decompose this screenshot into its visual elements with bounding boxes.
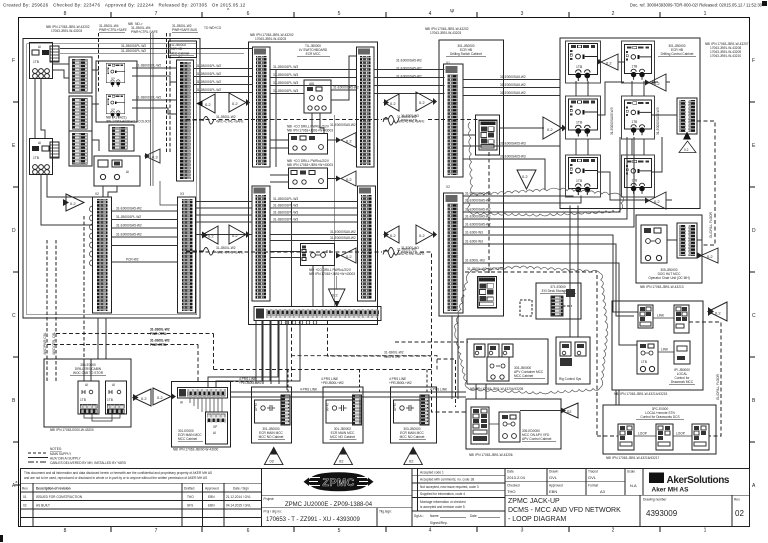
rotated labels D right bbox=[610, 107, 660, 135]
tick mark a left bbox=[15, 484, 20, 486]
svg-text:GL/DRILL FLOOR: GL/DRILL FLOOR bbox=[709, 211, 713, 238]
svg-text:31-JB00L-W2: 31-JB00L-W2 bbox=[216, 115, 236, 119]
svg-text:31-JB0001PL-W2: 31-JB0001PL-W2 bbox=[196, 64, 221, 68]
svg-text:AI: AI bbox=[112, 383, 115, 387]
revision row 02 bbox=[23, 504, 251, 508]
svg-text:IPN 17063+E000+CL+COL0O7: IPN 17063+E000+CL+COL0O7 bbox=[106, 120, 151, 124]
dashed into G left bbox=[597, 435, 618, 437]
svg-text:3: 3 bbox=[521, 528, 524, 534]
svg-text:0.2: 0.2 bbox=[390, 101, 396, 106]
title block outline bbox=[20, 468, 749, 526]
svg-text:1TB: 1TB bbox=[641, 360, 647, 364]
box L doghouse bbox=[391, 387, 437, 443]
note text right of D bbox=[705, 42, 749, 58]
svg-text:31-E0000SA5-W2: 31-E0000SA5-W2 bbox=[396, 67, 422, 71]
svg-text:Drawwork MCC: Drawwork MCC bbox=[671, 380, 694, 384]
svg-text:X1: X1 bbox=[178, 55, 182, 59]
gap A-B wires row2 bbox=[196, 202, 253, 235]
dashed wire gap B-C row2 bbox=[383, 246, 419, 255]
wire bundle C to D bbox=[463, 137, 638, 345]
svg-text:0.2: 0.2 bbox=[419, 100, 425, 105]
svg-text:Operator Chair Unit (OC MH): Operator Chair Unit (OC MH) bbox=[648, 276, 689, 280]
svg-text:GL/DRILL FLOOR: GL/DRILL FLOOR bbox=[716, 373, 720, 400]
wires B internal upper bbox=[270, 56, 357, 243]
svg-text:31-E0000SA05-W3: 31-E0000SA05-W3 bbox=[656, 107, 660, 135]
svg-text:Drawn: Drawn bbox=[549, 470, 558, 474]
revision table bbox=[20, 468, 261, 526]
svg-text:PWR CTRL: PWR CTRL bbox=[150, 343, 167, 347]
svg-text:X2: X2 bbox=[95, 192, 99, 196]
squiggle right of B row2 bbox=[383, 250, 394, 258]
svg-text:31-JB0001PL-W3: 31-JB0001PL-W3 bbox=[273, 89, 298, 93]
dashed bus lower 1 bbox=[56, 328, 214, 370]
triangle D-T3 bbox=[645, 192, 666, 209]
wire M1 to relays bbox=[53, 64, 70, 78]
svg-text:Accepted with comments, no. co: Accepted with comments, no. code 1B bbox=[420, 478, 474, 482]
svg-text:Name: Name bbox=[430, 514, 439, 518]
svg-text:NB! IPN 17063+JB91+W+43003: NB! IPN 17063+JB91+W+43003 bbox=[309, 272, 355, 276]
triangle B-T2 bbox=[336, 171, 356, 186]
svg-text:+PE/JB00L+W2: +PE/JB00L+W2 bbox=[389, 381, 412, 385]
svg-text:Format: Format bbox=[588, 484, 598, 488]
EX deck storage area box bbox=[536, 283, 581, 319]
cable label group 2 top bbox=[128, 22, 158, 34]
svg-text:31-E000SA05-W3: 31-E000SA05-W3 bbox=[500, 142, 526, 146]
svg-text:4WC+CTRL+SAFE: 4WC+CTRL+SAFE bbox=[216, 120, 243, 124]
svg-text:4 PRS LINK: 4 PRS LINK bbox=[300, 388, 318, 392]
svg-text:31-JB00L-W2: 31-JB00L-W2 bbox=[384, 351, 404, 355]
module D-M4 bbox=[624, 100, 651, 135]
svg-text:NB! IPN 17063-E000-W-43200: NB! IPN 17063-E000-W-43200 bbox=[50, 428, 94, 432]
cabinet A inner frame bbox=[27, 44, 197, 315]
svg-text:LINK: LINK bbox=[657, 314, 665, 318]
squiggle right of B row1 bbox=[383, 118, 394, 126]
svg-text:Montage information or checked: Montage information or checked bbox=[420, 500, 466, 504]
revision row 01 bbox=[23, 495, 251, 499]
svg-text:31-E0000SA5-W2: 31-E0000SA5-W2 bbox=[396, 75, 422, 79]
dashed bus lower 1 bbox=[56, 328, 214, 370]
corner mark top-right bbox=[762, 1, 767, 6]
svg-text:31-JB0001PL-W2: 31-JB0001PL-W2 bbox=[136, 64, 161, 68]
dashed wire gap A-B row2 bbox=[186, 246, 243, 255]
cable label group 1 top bbox=[99, 24, 127, 32]
svg-text:31-E0000SA5-W2: 31-E0000SA5-W2 bbox=[396, 59, 422, 63]
gap B-C wire labels row1 bbox=[396, 59, 422, 79]
dashed bus lower 2 bbox=[47, 339, 468, 382]
svg-text:31-E000SA05-W3: 31-E000SA05-W3 bbox=[500, 155, 526, 159]
svg-text:MCC NO Cabinet: MCC NO Cabinet bbox=[330, 435, 355, 439]
svg-text:Date: Date bbox=[507, 470, 514, 474]
svg-text:NB! IPN 17063-JB91-W-43214/432: NB! IPN 17063-JB91-W-43214/43215 bbox=[614, 392, 668, 396]
svg-text:4: 4 bbox=[429, 528, 432, 534]
cable label group 3 top bbox=[172, 24, 198, 32]
svg-text:AI+M: AI+M bbox=[254, 403, 258, 411]
svg-text:MCC Cabinet: MCC Cabinet bbox=[514, 374, 533, 378]
svg-text:Doc. ref. 30004393009-TDR-000-: Doc. ref. 30004393009-TDR-000-02/ Releas… bbox=[630, 3, 763, 8]
svg-text:31-JB0001PL-W2: 31-JB0001PL-W2 bbox=[116, 215, 141, 219]
dashed bus H left bbox=[420, 252, 466, 412]
svg-text:31-E0000SA5-W2: 31-E0000SA5-W2 bbox=[465, 192, 491, 196]
svg-text:Aker MH AS: Aker MH AS bbox=[652, 486, 690, 493]
svg-text:TO WD+CO: TO WD+CO bbox=[204, 26, 222, 30]
dashed cable drop 1 bbox=[98, 33, 100, 93]
dashed bus lower 2 bbox=[47, 339, 468, 382]
svg-text:Drawing number: Drawing number bbox=[643, 498, 667, 502]
wire trunk down left cabinet bbox=[41, 175, 93, 226]
svg-text:GVL: GVL bbox=[588, 475, 597, 480]
svg-text:MAIN SUPPLY: MAIN SUPPLY bbox=[50, 452, 72, 456]
cabinet B label bbox=[297, 44, 330, 56]
svg-text:LOOP: LOOP bbox=[676, 432, 685, 436]
rev box bbox=[732, 495, 744, 526]
dashed bus through B row2 bbox=[186, 251, 382, 253]
svg-text:4WC/PWR CBL: 4WC/PWR CBL bbox=[43, 332, 47, 355]
svg-text:21.12.2014 / GVL: 21.12.2014 / GVL bbox=[226, 495, 251, 499]
wires J to H bbox=[231, 392, 467, 397]
svg-text:31-E000-W3: 31-E000-W3 bbox=[465, 240, 483, 244]
svg-text:Accepted code 1: Accepted code 1 bbox=[420, 471, 444, 475]
dashed drop A bottom 2 bbox=[55, 240, 57, 381]
module B-M4 bbox=[301, 244, 335, 266]
svg-text:MCC NO Cabinet: MCC NO Cabinet bbox=[400, 435, 425, 439]
date table bbox=[505, 468, 750, 495]
ruler numbers bottom bbox=[64, 528, 707, 535]
triangle B-T1 bbox=[336, 133, 356, 148]
project row bbox=[262, 495, 413, 508]
triangle pair right of I left bbox=[133, 389, 151, 406]
triangle between H and G bbox=[561, 403, 578, 418]
svg-text:0.2: 0.2 bbox=[707, 254, 713, 259]
svg-text:5: 5 bbox=[338, 11, 341, 17]
drawing number box bbox=[640, 495, 678, 526]
svg-text:02: 02 bbox=[409, 459, 414, 464]
date table texts bbox=[507, 470, 635, 488]
svg-text:31-E0000SA05-W3: 31-E0000SA05-W3 bbox=[610, 107, 614, 135]
triangle pair gap B-C row1 right bbox=[416, 92, 437, 111]
svg-text:17063-JB91-W-43203: 17063-JB91-W-43203 bbox=[51, 29, 82, 33]
svg-text:NB! IPN 17063-JB91-W-43216/432: NB! IPN 17063-JB91-W-43216/43217 bbox=[606, 456, 660, 460]
cabinet B bottom drops bbox=[256, 321, 287, 391]
svg-text:31-E0000SA5-W2: 31-E0000SA5-W2 bbox=[500, 91, 526, 95]
ruler numbers top bbox=[64, 11, 707, 17]
wire bundle labels C-D bbox=[465, 192, 491, 263]
box K2 bbox=[323, 387, 363, 443]
svg-text:31-JB0001PL-W2: 31-JB0001PL-W2 bbox=[121, 44, 146, 48]
label right of B row2 bbox=[397, 248, 424, 257]
ruler ticks right bbox=[750, 102, 756, 442]
svg-text:Supplied for information, code: Supplied for information, code 4 bbox=[420, 492, 465, 496]
svg-text:17063-JB91-W-43203: 17063-JB91-W-43203 bbox=[430, 31, 461, 35]
svg-text:C: C bbox=[12, 313, 16, 319]
terminal block D-TB bbox=[677, 98, 697, 134]
wires C-T2 down to box H bbox=[452, 316, 486, 399]
module C-M1 bbox=[476, 115, 500, 155]
terminal strip A-T1 bbox=[177, 60, 194, 181]
svg-text:31-JB0001PL-W2: 31-JB0001PL-W2 bbox=[121, 49, 146, 53]
svg-text:4WC/CTRL CBL: 4WC/CTRL CBL bbox=[52, 332, 56, 355]
svg-text:ZPMC: ZPMC bbox=[322, 477, 354, 489]
module B-M1 bbox=[304, 80, 331, 113]
svg-text:31-E000-W3: 31-E000-W3 bbox=[401, 114, 419, 118]
module A-M1 bbox=[30, 43, 53, 79]
svg-text:MCC NO Cabinet: MCC NO Cabinet bbox=[259, 435, 284, 439]
svg-text:NB! IPN 17063-JB000-W-43000: NB! IPN 17063-JB000-W-43000 bbox=[173, 448, 219, 452]
svg-text:PCR-W2: PCR-W2 bbox=[126, 258, 139, 262]
svg-text:6: 6 bbox=[247, 11, 250, 17]
svg-text:02: 02 bbox=[270, 459, 275, 464]
triangle pair gap B-C row2 left bbox=[384, 226, 399, 243]
relay stack A-R2 bbox=[69, 96, 92, 131]
svg-text:Rev.: Rev. bbox=[22, 487, 28, 491]
svg-text:3: 3 bbox=[521, 11, 524, 17]
dashed bus through B row1 bbox=[186, 119, 382, 121]
svg-text:Not accepted, new issue requir: Not accepted, new issue required, code 3 bbox=[420, 485, 479, 489]
module D-M5 bbox=[569, 158, 598, 196]
svg-text:EBN: EBN bbox=[208, 495, 215, 499]
svg-text:F: F bbox=[752, 58, 755, 64]
svg-text:02: 02 bbox=[339, 459, 344, 464]
svg-text:X2: X2 bbox=[446, 185, 450, 189]
svg-text:C: C bbox=[752, 313, 756, 319]
svg-text:31-JB0001PL-W3: 31-JB0001PL-W3 bbox=[273, 73, 298, 77]
svg-text:ISSUED FOR CONSTRUCTION: ISSUED FOR CONSTRUCTION bbox=[36, 495, 83, 499]
rig control sys box bbox=[556, 337, 590, 384]
box G drawworks DCS bbox=[603, 405, 716, 454]
wires D internal bbox=[598, 60, 677, 200]
module D-M1 outer bbox=[566, 41, 601, 83]
triangle under K2 bbox=[334, 447, 353, 464]
svg-text:0.2: 0.2 bbox=[547, 127, 553, 132]
svg-text:0.2: 0.2 bbox=[346, 177, 352, 182]
svg-text:02: 02 bbox=[567, 409, 572, 414]
svg-text:31-E0000SA5-W2: 31-E0000SA5-W2 bbox=[116, 233, 142, 237]
dashed drops below B bbox=[292, 321, 432, 381]
svg-text:Drafted: Drafted bbox=[184, 487, 195, 491]
dashed cells left of EX box bbox=[520, 300, 532, 316]
svg-text:31-JB0001PL-W3: 31-JB0001PL-W3 bbox=[273, 81, 298, 85]
svg-text:0.2: 0.2 bbox=[606, 61, 612, 66]
triangle pair gap B-C row2 right bbox=[416, 225, 437, 244]
svg-text:7: 7 bbox=[155, 528, 158, 534]
svg-text:Date: Date bbox=[470, 514, 477, 518]
svg-text:NB! IPN 17063-JB91-W-43206: NB! IPN 17063-JB91-W-43206 bbox=[469, 453, 513, 457]
svg-text:Date / Sign: Date / Sign bbox=[233, 487, 249, 491]
wire M1 down bbox=[35, 79, 45, 139]
wire labels B internal lower bbox=[273, 197, 356, 240]
ruler letters right bbox=[752, 58, 756, 489]
svg-text:5: 5 bbox=[338, 528, 341, 534]
svg-text:is accepted and revision code: is accepted and revision code 5 bbox=[420, 505, 465, 509]
triangle pair gap A-B row1 left bbox=[196, 94, 215, 113]
svg-text:This document and all informat: This document and all information and da… bbox=[24, 471, 212, 475]
svg-text:31-JB0001PL-W2: 31-JB0001PL-W2 bbox=[196, 88, 221, 92]
svg-text:2: 2 bbox=[612, 11, 615, 17]
triangle D-T1 bbox=[597, 54, 618, 70]
module A-B1 bbox=[106, 63, 124, 87]
terminal strip C-T2 bbox=[444, 193, 464, 313]
svg-text:0.2: 0.2 bbox=[346, 139, 352, 144]
svg-text:NB! IPN 17063-JB91-W-43204/432: NB! IPN 17063-JB91-W-43204/43205 bbox=[470, 387, 524, 391]
svg-text:- LOOP DIAGRAM: - LOOP DIAGRAM bbox=[508, 516, 566, 523]
svg-text:ECR MCC: ECR MCC bbox=[306, 52, 322, 56]
box J ECR MAIN MCC bbox=[172, 381, 231, 447]
svg-text:Ψ: Ψ bbox=[450, 9, 454, 15]
APV container MCC cabinet bbox=[467, 339, 548, 384]
svg-text:Rig Control Sys: Rig Control Sys bbox=[559, 377, 582, 381]
svg-text:AUX/ DIN AI SUPPLY: AUX/ DIN AI SUPPLY bbox=[50, 457, 82, 461]
module D-M6 bbox=[624, 159, 651, 194]
cells box A-C1 bbox=[109, 125, 134, 151]
down triangle C bbox=[517, 170, 536, 189]
svg-text:SFS: SFS bbox=[187, 504, 193, 508]
hook circles under strip B-H bbox=[278, 321, 317, 325]
svg-text:4 PRS LINK: 4 PRS LINK bbox=[430, 388, 448, 392]
svg-text:6: 6 bbox=[247, 528, 250, 534]
svg-text:X3: X3 bbox=[180, 192, 184, 196]
svg-text:EBN: EBN bbox=[549, 489, 557, 494]
wire E internal bbox=[667, 240, 702, 249]
driller cabin box I bbox=[44, 359, 131, 427]
relay stack A-R3 bbox=[69, 131, 92, 166]
triangle C right bbox=[543, 117, 567, 139]
svg-text:Traced: Traced bbox=[588, 470, 598, 474]
big triangle F right bbox=[708, 302, 727, 321]
svg-text:AkerSolutions: AkerSolutions bbox=[667, 475, 730, 486]
svg-text:01: 01 bbox=[23, 495, 27, 499]
svg-text:31-JB0001PL-W2: 31-JB0001PL-W2 bbox=[136, 96, 161, 100]
svg-text:04.14.2015 / GVL: 04.14.2015 / GVL bbox=[226, 504, 251, 508]
module D-M3 bbox=[569, 99, 598, 137]
svg-text:and are not to be used, reprod: and are not to be used, reproduced or di… bbox=[24, 476, 207, 480]
svg-text:4WC+CTRL+SAFE: 4WC+CTRL+SAFE bbox=[216, 251, 243, 255]
wire A top runs bbox=[60, 44, 253, 54]
svg-text:31-E0000SA5-W2: 31-E0000SA5-W2 bbox=[330, 236, 356, 240]
svg-text:2013.2.04: 2013.2.04 bbox=[507, 475, 526, 480]
relay stack A-R1 bbox=[69, 57, 92, 93]
svg-text:0.2: 0.2 bbox=[232, 101, 238, 106]
svg-text:DCMS - MCC AND VFD NETWORK: DCMS - MCC AND VFD NETWORK bbox=[508, 507, 621, 514]
svg-text:0.2: 0.2 bbox=[654, 199, 660, 204]
svg-text:1TB: 1TB bbox=[33, 156, 39, 160]
svg-text:NB! IPN 17063+JB91+W+43003: NB! IPN 17063+JB91+W+43003 bbox=[287, 163, 333, 167]
hatch box A-H1 bbox=[50, 46, 59, 62]
wires C to D upper bbox=[463, 80, 560, 191]
module box A-B3 bbox=[94, 156, 140, 186]
svg-text:CABLES DELIVERED BY MH, INSTAL: CABLES DELIVERED BY MH, INSTALLED BY YAR… bbox=[50, 461, 127, 465]
svg-text:8: 8 bbox=[64, 11, 67, 17]
module B-M2 bbox=[289, 134, 328, 155]
svg-text:Tilg.tegn:: Tilg.tegn: bbox=[379, 510, 392, 514]
cabinet C outline bbox=[439, 40, 504, 316]
terminal strip A-T2 bbox=[93, 197, 112, 313]
svg-text:D: D bbox=[752, 228, 756, 234]
cabinet B outline bbox=[249, 42, 378, 325]
svg-text:Approved: Approved bbox=[205, 487, 219, 491]
dashed bus C-D bbox=[465, 267, 597, 272]
drg no row bbox=[262, 508, 413, 527]
cabinet B bottom drops bbox=[208, 321, 300, 388]
svg-text:PWR+CTRL SAFE: PWR+CTRL SAFE bbox=[131, 30, 158, 34]
squiggle gap A-B row1 bbox=[203, 117, 214, 125]
dashed drop A bottom 3 bbox=[83, 216, 85, 381]
triangle under K1 bbox=[264, 447, 283, 464]
svg-text:Description of revision: Description of revision bbox=[36, 487, 71, 491]
svg-text:31-E000-W3: 31-E000-W3 bbox=[401, 246, 419, 250]
wire labels T2-T3 bbox=[116, 207, 142, 262]
accepted codes texts bbox=[414, 471, 500, 526]
wires B internal lower bbox=[270, 202, 358, 307]
svg-text:31-E0000SA5-W2: 31-E0000SA5-W2 bbox=[465, 223, 491, 227]
ruler ticks top bbox=[111, 12, 660, 18]
svg-text:0.2: 0.2 bbox=[205, 102, 211, 107]
terminal strip B-TL bbox=[253, 47, 271, 167]
box K1 bbox=[252, 387, 292, 443]
triangle pair gap A-B row2 right bbox=[229, 225, 250, 244]
wire labels B internal upper bbox=[273, 65, 359, 127]
svg-text:4393009: 4393009 bbox=[646, 509, 678, 518]
hatch box A-H2 bbox=[50, 142, 59, 158]
dashed wire gap A-B row1 bbox=[186, 115, 243, 124]
wire B1 B2 to T1 bbox=[132, 68, 177, 114]
hook arcs left of strip A-T2 bbox=[90, 206, 93, 266]
note under module B-M4 bbox=[309, 268, 355, 276]
gap A-B wires row1 bbox=[194, 69, 253, 93]
svg-text:31-E0000SA5-W2: 31-E0000SA5-W2 bbox=[465, 199, 491, 203]
revision table header bbox=[22, 487, 249, 491]
svg-text:0.2: 0.2 bbox=[419, 233, 425, 238]
svg-text:31-JB00L-W2: 31-JB00L-W2 bbox=[216, 246, 236, 250]
svg-text:ZPMC JU2000E - ZP09-1388-04: ZPMC JU2000E - ZP09-1388-04 bbox=[285, 502, 373, 508]
triangle under L bbox=[404, 447, 423, 464]
svg-text:Drilling Switch Cabinet: Drilling Switch Cabinet bbox=[450, 52, 482, 56]
svg-text:1TB: 1TB bbox=[107, 398, 113, 402]
svg-text:1TB: 1TB bbox=[80, 398, 86, 402]
svg-text:0.2: 0.2 bbox=[141, 396, 147, 401]
dashed vertical cloud left bbox=[596, 275, 598, 436]
squiggle gap B-C row1 bbox=[388, 116, 399, 124]
svg-text:Created By: 259626 Checked B: Created By: 259626 Checked By: 223476 Ap… bbox=[3, 3, 246, 8]
svg-text:AI: AI bbox=[213, 431, 216, 435]
module D-M1 bbox=[569, 44, 598, 82]
squiggle gap A-B row2 bbox=[203, 248, 214, 256]
cloud main bbox=[455, 266, 608, 394]
svg-text:LOOP: LOOP bbox=[638, 432, 647, 436]
svg-text:Rev.: Rev. bbox=[734, 498, 740, 502]
svg-text:31-E000-W3: 31-E000-W3 bbox=[465, 231, 483, 235]
svg-text:AI: AI bbox=[126, 170, 129, 174]
svg-text:NOTES:: NOTES: bbox=[50, 447, 62, 451]
ruler letters left bbox=[12, 58, 16, 489]
gap A-B wire labels row1 bbox=[196, 64, 221, 92]
drawing title bbox=[508, 498, 621, 523]
svg-text:EBN: EBN bbox=[208, 504, 215, 508]
svg-text:Signed/Rep.: Signed/Rep. bbox=[430, 521, 448, 525]
corridor verticals D to cloud bbox=[570, 206, 619, 406]
svg-text:Project:: Project: bbox=[264, 497, 275, 501]
module A-B2 bbox=[106, 94, 124, 118]
svg-text:31-E0000SA5-W2: 31-E0000SA5-W2 bbox=[500, 83, 526, 87]
svg-text:a: a bbox=[16, 480, 18, 484]
disclaimer box bbox=[20, 468, 261, 483]
svg-text:31-JB0001PL-W3: 31-JB0001PL-W3 bbox=[273, 204, 298, 208]
wires D inter-module bbox=[576, 81, 644, 155]
gap B-C wires row1 bbox=[374, 70, 445, 94]
svg-text:0.2: 0.2 bbox=[232, 233, 238, 238]
svg-text:Scale: Scale bbox=[627, 470, 635, 474]
label above L bbox=[389, 377, 412, 385]
svg-text:MCC Cabinet: MCC Cabinet bbox=[178, 437, 197, 441]
wire A-B3 to T2 bbox=[103, 186, 117, 197]
